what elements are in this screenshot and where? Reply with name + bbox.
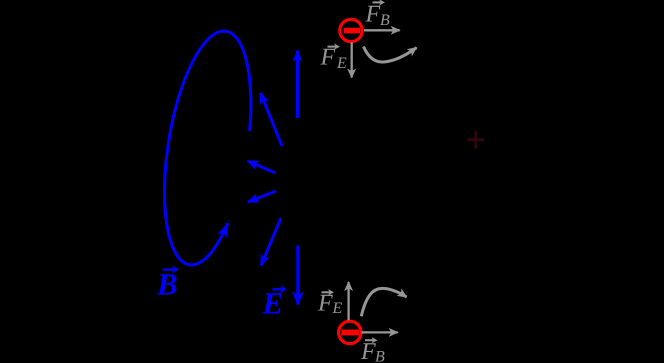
svg-text:B: B <box>375 349 385 363</box>
E field arrow up-left <box>261 93 283 146</box>
trajectory arrow top (gray, curved) <box>364 47 417 63</box>
svg-text:B: B <box>380 12 390 29</box>
force arrow F_B top (gray, right) <box>364 29 400 31</box>
force arrow F_E bottom (gray, up) <box>347 282 349 320</box>
svg-text:E: E <box>262 286 284 321</box>
label F_B top (gray) <box>365 0 391 29</box>
node: source charge marker (faint dark red plus) <box>468 131 485 148</box>
B field loop (tilted ellipse arc, counterclockwise, arrowhead bottom-right) <box>165 31 251 265</box>
force arrow F_E top (gray, down) <box>351 43 353 78</box>
E field arrow down <box>296 246 299 305</box>
charge q1 top (circled minus, red) <box>340 19 362 41</box>
svg-text:F: F <box>365 1 381 27</box>
svg-text:E: E <box>336 55 347 72</box>
label F_E bottom (gray) <box>317 289 343 317</box>
svg-text:F: F <box>360 339 376 363</box>
label F_E top (gray) <box>320 43 348 72</box>
svg-text:E: E <box>332 300 343 317</box>
label E vector (blue) <box>262 285 288 320</box>
svg-text:F: F <box>317 290 333 316</box>
label B vector (blue) <box>156 266 179 302</box>
E field arrow down-left <box>261 218 281 266</box>
svg-text:F: F <box>320 45 336 71</box>
E field arrow left-up <box>248 161 276 173</box>
label F_B bottom (gray) <box>360 337 385 363</box>
trajectory arrow bottom (gray, curved) <box>361 288 406 316</box>
E field arrow up <box>296 51 299 119</box>
force arrow F_B bottom (gray, right) <box>362 331 398 333</box>
E field arrow left-down <box>248 191 276 202</box>
charge q2 bottom (circled minus, red) <box>339 321 361 343</box>
